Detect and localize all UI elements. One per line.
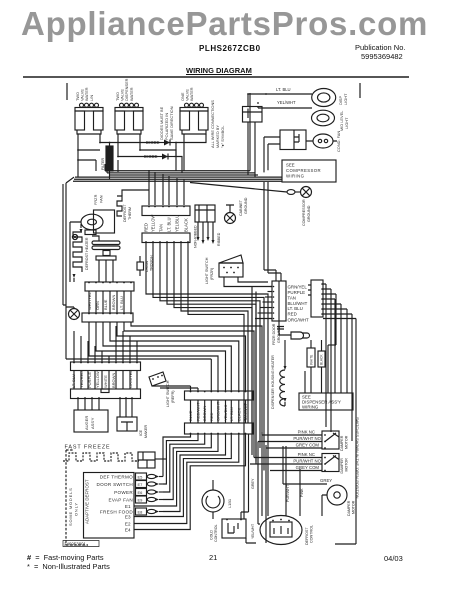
svg-text:GREY COM: GREY COM: [296, 443, 320, 448]
svg-text:YELLOW: YELLOW: [151, 214, 156, 232]
svg-text:GRN/YEL: GRN/YEL: [288, 285, 308, 290]
svg-text:DISPENSER HOUSING HEATER: DISPENSER HOUSING HEATER: [271, 355, 275, 409]
svg-text:RED: RED: [144, 223, 149, 232]
svg-text:L1B1: L1B1: [227, 499, 232, 508]
svg-text:WATER: WATER: [129, 87, 134, 101]
svg-text:GROUND: GROUND: [244, 197, 248, 214]
svg-text:WATER: WATER: [189, 87, 194, 101]
svg-text:E5: E5: [138, 474, 144, 479]
svg-text:MAKER: MAKER: [144, 425, 148, 438]
svg-text:YEL/WHT: YEL/WHT: [277, 100, 296, 105]
svg-text:LIGHT SWITCH: LIGHT SWITCH: [166, 380, 170, 407]
svg-text:CONTROL: CONTROL: [310, 525, 314, 543]
svg-text:LIGHT: LIGHT: [344, 117, 349, 129]
svg-text:E2: E2: [125, 521, 131, 526]
svg-text:CONTROL: CONTROL: [214, 524, 218, 542]
svg-text:SOME MODELS: SOME MODELS: [68, 487, 73, 526]
svg-text:E9: E9: [138, 497, 144, 502]
svg-text:WHITE: WHITE: [310, 355, 314, 365]
svg-text:GROUND: GROUND: [307, 205, 311, 222]
svg-text:PUR/WHT NO: PUR/WHT NO: [293, 436, 321, 441]
svg-text:PINK: PINK: [300, 488, 304, 497]
svg-text:LIGHT: LIGHT: [343, 93, 348, 105]
svg-text:THERM: THERM: [128, 207, 132, 220]
svg-text:WIRING: WIRING: [302, 405, 319, 410]
svg-text:AUGER: AUGER: [84, 416, 89, 430]
svg-text:DEFROST HEATER: DEFROST HEATER: [85, 237, 89, 270]
svg-text:E7: E7: [138, 482, 144, 487]
svg-text:COND. FAN: COND. FAN: [336, 131, 341, 152]
svg-text:DAMPER: DAMPER: [340, 458, 344, 474]
svg-text:(FRZR): (FRZR): [210, 268, 214, 280]
svg-text:FILTER: FILTER: [101, 157, 105, 170]
svg-text:COLD: COLD: [210, 530, 214, 540]
svg-text:TAN: TAN: [159, 224, 164, 232]
svg-text:BLACK: BLACK: [184, 218, 189, 232]
svg-text:ORG/WHT: ORG/WHT: [288, 318, 310, 323]
svg-text:LT. BLU: LT. BLU: [119, 296, 124, 310]
svg-text:ICE: ICE: [139, 429, 143, 436]
svg-text:SWITCHES SHOWN IN THE 'OPEN' P: SWITCHES SHOWN IN THE 'OPEN' POSITION: [355, 417, 359, 499]
svg-text:BLACK: BLACK: [320, 354, 324, 365]
svg-text:COMPRESSOR: COMPRESSOR: [302, 199, 306, 226]
svg-text:GREY COM: GREY COM: [296, 465, 320, 470]
svg-text:YEL/BLU: YEL/BLU: [175, 215, 180, 232]
svg-text:SEE: SEE: [286, 163, 295, 168]
svg-text:GREY: GREY: [251, 478, 255, 489]
svg-text:E1: E1: [125, 504, 131, 509]
svg-text:DEF THERMO: DEF THERMO: [100, 474, 133, 479]
svg-text:POWER: POWER: [114, 490, 133, 495]
svg-text:FRZR: FRZR: [93, 194, 98, 205]
svg-text:NON-RIBBED: NON-RIBBED: [194, 225, 198, 248]
svg-text:FAN: FAN: [99, 195, 104, 203]
svg-text:PUR/WHT NO: PUR/WHT NO: [293, 459, 321, 464]
svg-text:ASS'Y: ASS'Y: [90, 417, 95, 429]
svg-text:246953801: 246953801: [64, 542, 87, 547]
svg-text:MOTOR: MOTOR: [352, 500, 356, 514]
svg-text:EVAP FAN: EVAP FAN: [109, 497, 133, 502]
svg-text:DEFROST: DEFROST: [305, 527, 309, 545]
svg-text:LT. BLU: LT. BLU: [276, 87, 291, 92]
svg-text:ADAPTIVE DEFROST: ADAPTIVE DEFROST: [85, 479, 90, 524]
svg-text:WIRING: WIRING: [286, 174, 305, 179]
svg-text:MOTOR: MOTOR: [345, 458, 349, 472]
svg-text:CABINET: CABINET: [239, 199, 243, 216]
svg-text:(REFR): (REFR): [171, 391, 175, 404]
svg-text:BROWN: BROWN: [111, 295, 116, 310]
svg-text:LT. BLU: LT. BLU: [167, 217, 172, 232]
svg-text:DEFROST: DEFROST: [123, 204, 127, 222]
svg-text:PINK NC: PINK NC: [298, 430, 315, 435]
svg-text:PINK NC: PINK NC: [298, 452, 315, 457]
svg-text:SAME DIRECTION: SAME DIRECTION: [169, 106, 174, 140]
svg-text:E6: E6: [138, 490, 144, 495]
svg-text:"●" SYMBOL: "●" SYMBOL: [220, 125, 225, 148]
svg-text:L/N: L/N: [89, 95, 94, 101]
svg-text:DAMPER: DAMPER: [340, 435, 344, 451]
svg-text:E3: E3: [125, 514, 131, 519]
svg-text:LIGHT SWITCH: LIGHT SWITCH: [205, 257, 209, 284]
svg-text:FRZR DOOR: FRZR DOOR: [272, 323, 276, 345]
svg-text:BLUE: BLUE: [103, 299, 108, 310]
svg-text:PURPLE: PURPLE: [288, 290, 306, 295]
svg-text:E8: E8: [138, 509, 144, 514]
svg-text:PUR/WHT: PUR/WHT: [286, 484, 290, 502]
svg-text:MOTOR: MOTOR: [345, 435, 349, 449]
svg-text:TAN: TAN: [288, 296, 296, 301]
svg-text:RIBBED: RIBBED: [217, 232, 221, 246]
svg-text:ONLY: ONLY: [74, 502, 79, 516]
svg-text:COMPRESSOR: COMPRESSOR: [286, 168, 321, 173]
svg-text:GREY: GREY: [320, 478, 332, 483]
svg-text:E4: E4: [125, 527, 131, 532]
svg-text:YEL/WHT: YEL/WHT: [251, 524, 255, 539]
svg-text:LT. BLU: LT. BLU: [288, 306, 303, 311]
svg-text:WHITE: WHITE: [103, 375, 108, 388]
svg-text:DOOR SWITCH: DOOR SWITCH: [97, 482, 133, 487]
svg-text:YELLOW: YELLOW: [95, 371, 100, 388]
svg-text:DAMPER: DAMPER: [347, 500, 351, 516]
svg-text:BROWN: BROWN: [111, 373, 116, 388]
svg-text:RED: RED: [288, 312, 297, 317]
